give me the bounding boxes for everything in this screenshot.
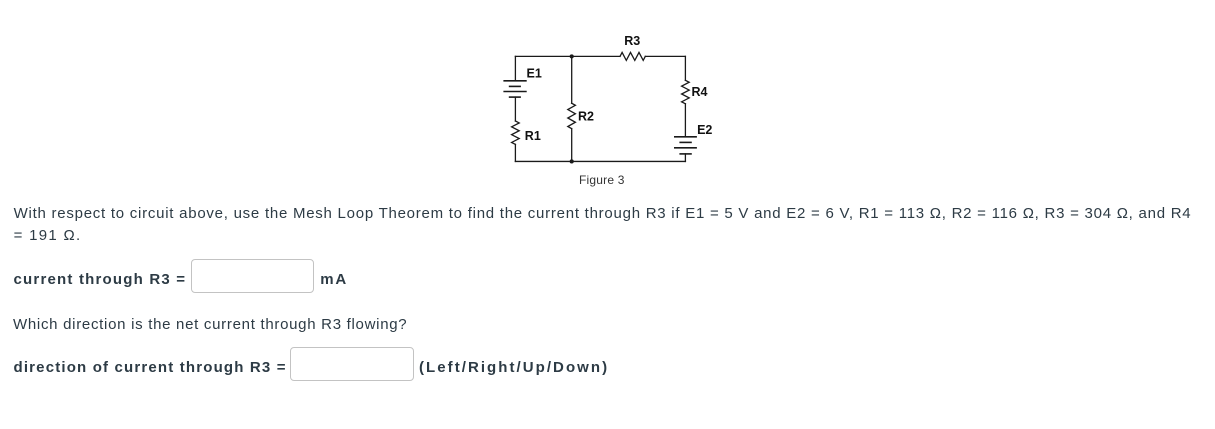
wire: top side, left corner to node A — [515, 55, 571, 57]
wire: R2 bottom lead down to node B — [571, 129, 573, 162]
svg-text:R3: R3 — [624, 34, 640, 48]
resistor R4 — [682, 80, 690, 104]
question text line 2 — [14, 228, 82, 244]
svg-text:R1: R1 — [525, 129, 541, 143]
unit label mA — [320, 272, 348, 288]
resistor R1 — [512, 121, 520, 144]
answer label: current through R3 = — [14, 272, 187, 288]
node B (bottom junction dot) — [570, 159, 574, 163]
svg-text:R2: R2 — [578, 109, 594, 123]
answer label: direction of current through R3 = — [14, 360, 287, 376]
answer input box 2 — [290, 347, 414, 381]
wire: bottom side, left corner to right corner through node B — [515, 160, 685, 162]
answer input box 1 — [191, 259, 314, 292]
wire: node A down to R2 top lead — [571, 56, 573, 103]
wire: R1 bottom lead down to bottom-left corner — [514, 144, 516, 161]
circuit schematic figure — [0, 0, 740, 200]
question text line 1 — [14, 206, 1192, 222]
svg-text:R4: R4 — [692, 85, 708, 99]
svg-text:E1: E1 — [527, 67, 542, 81]
battery E2 — [675, 137, 696, 154]
wire: left side, top-left corner down to E1 positive plate — [514, 56, 516, 80]
options label: (Left/Right/Up/Down) — [419, 360, 609, 376]
question: direction prompt — [13, 317, 407, 333]
resistor R3 — [620, 52, 645, 60]
wire: R3 right lead to top-right corner — [645, 55, 685, 57]
wire: top-right corner down to R4 top lead — [684, 56, 686, 80]
wire: node A to R3 left lead — [572, 55, 620, 57]
svg-text:E2: E2 — [697, 123, 712, 137]
caption: Figure 3 — [579, 173, 625, 187]
node A (top junction dot) — [570, 54, 574, 58]
battery E1 — [504, 81, 526, 97]
wire: E2 negative plate down to bottom-right corner — [684, 154, 686, 162]
resistor R2 — [568, 103, 576, 128]
wire: R4 bottom lead down to E2 positive plate — [684, 104, 686, 137]
wire: E1 negative plate down to R1 top lead — [514, 97, 516, 121]
